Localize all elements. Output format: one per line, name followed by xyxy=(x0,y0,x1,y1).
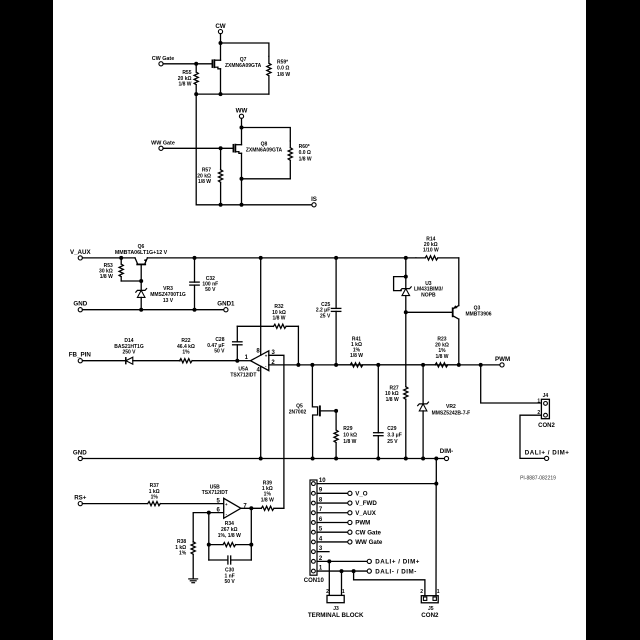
capacitor C32 xyxy=(190,258,218,310)
wire CW Gate to Q7 gate xyxy=(163,62,212,66)
wire U3 to Q3 base xyxy=(404,310,453,314)
node GND lower xyxy=(73,450,87,461)
wire J4 pin2 to DALI+ xyxy=(520,415,545,458)
wire Q3 collector down xyxy=(457,319,461,367)
wire node to IS rail xyxy=(196,94,312,205)
svg-text:50 V: 50 V xyxy=(224,579,235,585)
svg-text:DALI+ / DIM+: DALI+ / DIM+ xyxy=(375,559,420,566)
wire Q7 bottom rail xyxy=(194,92,269,96)
wire Q8 bottom rail xyxy=(242,178,291,180)
svg-text:MMBT3906: MMBT3906 xyxy=(465,312,491,318)
svg-text:V_AUX: V_AUX xyxy=(355,510,377,517)
svg-text:VR2: VR2 xyxy=(446,404,456,410)
transistor Q5 xyxy=(289,363,338,461)
svg-text:50 V: 50 V xyxy=(214,349,225,355)
svg-text:RS+: RS+ xyxy=(74,495,87,502)
svg-text:1%: 1% xyxy=(182,350,190,356)
capacitor C28 xyxy=(207,326,242,360)
wire R32 down to inverting input xyxy=(296,326,300,367)
wire pin9 V_O xyxy=(317,491,368,498)
wire pin8 V_FWD xyxy=(317,500,377,507)
resistor R38 xyxy=(175,539,195,579)
wire pin1 DALI- xyxy=(317,568,417,575)
wire U5A pin3 non-inverting input xyxy=(269,355,284,508)
svg-text:DIM-: DIM- xyxy=(440,448,453,455)
wire R53 to VR3 node xyxy=(121,279,143,283)
svg-text:WW Gate: WW Gate xyxy=(355,539,383,546)
wire Q7 source to bottom rail xyxy=(219,69,223,96)
node GND xyxy=(73,301,87,312)
shunt regulator U3 xyxy=(394,258,444,312)
svg-text:J3: J3 xyxy=(333,606,339,612)
svg-text:1: 1 xyxy=(537,398,540,404)
wire WW Gate to Q8 gate xyxy=(163,146,233,150)
svg-text:PWM: PWM xyxy=(495,356,510,363)
svg-text:TSX712IDT: TSX712IDT xyxy=(230,372,256,378)
capacitor C25 xyxy=(316,258,341,365)
diode D14 xyxy=(82,338,180,364)
wire pin6 PWM xyxy=(317,520,370,527)
wire pin2 DALI+ xyxy=(317,559,420,566)
svg-text:FB_PIN: FB_PIN xyxy=(69,352,92,359)
transistor Q3 xyxy=(453,305,492,319)
wire R34 C30 loop right xyxy=(250,508,252,560)
wire CON10 pin10 to DIM- net xyxy=(317,459,438,596)
svg-text:PWM: PWM xyxy=(355,520,370,527)
wire U5B output xyxy=(241,506,261,510)
svg-text:1/8 W: 1/8 W xyxy=(386,397,399,403)
svg-text:1%: 1% xyxy=(151,495,159,501)
node WW Gate xyxy=(151,140,175,150)
svg-text:13 V: 13 V xyxy=(163,298,174,304)
label PI-8887-082219 xyxy=(520,476,556,482)
svg-text:1/8 W: 1/8 W xyxy=(277,72,290,78)
zener VR2 xyxy=(418,363,471,461)
svg-text:+: + xyxy=(265,354,268,359)
svg-text:1%: 1% xyxy=(179,551,187,557)
svg-text:MMSZ5242B-7-F: MMSZ5242B-7-F xyxy=(432,410,471,416)
resistor R22 xyxy=(177,338,237,363)
svg-text:2N7002: 2N7002 xyxy=(289,410,307,416)
svg-text:250 V: 250 V xyxy=(122,350,136,356)
capacitor C29 xyxy=(374,363,402,461)
wire R57 to IS rail xyxy=(219,203,223,207)
svg-text:25 V: 25 V xyxy=(320,314,331,320)
wire V_AUX rail xyxy=(82,256,135,260)
ground xyxy=(189,579,198,583)
wire U5A pin2 inverting input xyxy=(269,364,502,366)
svg-text:1/8 W: 1/8 W xyxy=(343,439,356,445)
transistor Q6 xyxy=(115,244,168,281)
resistor R34 xyxy=(207,521,254,547)
resistor R23 xyxy=(378,337,459,367)
wire pin5 CW Gate xyxy=(317,529,382,536)
svg-text:Q3: Q3 xyxy=(474,305,481,311)
svg-text:DALI+ / DIM+: DALI+ / DIM+ xyxy=(525,450,570,457)
resistor R32 feedback xyxy=(237,304,298,328)
svg-text:1: 1 xyxy=(342,589,345,595)
connector J5 CON2 xyxy=(420,589,440,619)
svg-text:1/8 W: 1/8 W xyxy=(100,274,113,280)
node IS xyxy=(311,196,317,207)
op-amp U5A xyxy=(230,349,275,379)
connector CON10 xyxy=(304,480,325,584)
svg-text:1/8 W: 1/8 W xyxy=(261,497,274,503)
svg-text:1/8 W: 1/8 W xyxy=(198,179,211,185)
node RS+ xyxy=(74,495,87,506)
node DALI+ / DIM+ xyxy=(525,450,570,461)
wire U5B pin6 input xyxy=(193,511,224,542)
svg-text:TSX712IDT: TSX712IDT xyxy=(202,490,228,496)
wire pin3 stub xyxy=(317,551,329,553)
svg-text:1%, 1/8 W: 1%, 1/8 W xyxy=(218,533,241,539)
wire GND rail to DIM- xyxy=(82,457,444,461)
wire R34 C30 loop left xyxy=(208,513,210,560)
connector J3 terminal block xyxy=(308,589,364,619)
svg-text:WW: WW xyxy=(236,107,248,114)
svg-text:3.3 μF: 3.3 μF xyxy=(387,433,401,439)
resistor R39 xyxy=(261,480,284,510)
resistor R55 xyxy=(178,64,199,94)
svg-text:1/10 W: 1/10 W xyxy=(423,248,439,254)
wire pin4 WW Gate xyxy=(317,539,383,546)
wire xyxy=(220,34,222,43)
resistor R14 xyxy=(416,237,459,260)
svg-text:NOPB: NOPB xyxy=(421,292,436,298)
svg-text:C29: C29 xyxy=(387,426,396,432)
wire DALI+ to J3 pin2 xyxy=(328,561,330,595)
svg-text:CW: CW xyxy=(215,23,225,30)
node CW Gate xyxy=(152,56,174,66)
svg-text:1/8 W: 1/8 W xyxy=(350,353,363,359)
svg-text:DALI- / DIM-: DALI- / DIM- xyxy=(375,568,417,575)
wire Q8 drain rail xyxy=(240,126,291,145)
node V_AUX xyxy=(70,249,92,260)
svg-text:R60*: R60* xyxy=(299,144,310,150)
wire R14 to Q3 emitter xyxy=(458,258,460,306)
transistor Q8 xyxy=(233,142,282,154)
svg-text:0.0 Ω: 0.0 Ω xyxy=(277,66,289,72)
node DIM- xyxy=(440,448,453,460)
wire U5A pin8 to +12V xyxy=(260,258,262,355)
resistor R37 xyxy=(82,483,223,506)
wire Q7 drain rail xyxy=(219,41,269,60)
wire xyxy=(241,118,243,127)
svg-text:TERMINAL BLOCK: TERMINAL BLOCK xyxy=(308,612,364,619)
wire U5A pin4 to GND xyxy=(259,366,263,460)
svg-text:MMBTA06LT1G+12 V: MMBTA06LT1G+12 V xyxy=(115,250,168,256)
svg-text:CW Gate: CW Gate xyxy=(355,529,381,536)
svg-text:10 kΩ: 10 kΩ xyxy=(343,433,357,439)
resistor R27 xyxy=(385,312,408,460)
svg-text:PI-8887-082219: PI-8887-082219 xyxy=(520,476,556,482)
svg-text:GND1: GND1 xyxy=(217,301,235,308)
svg-text:ZXMN6A09GTA: ZXMN6A09GTA xyxy=(246,147,283,153)
resistor R53 xyxy=(99,258,123,281)
wire GND to GND1 xyxy=(82,308,223,312)
svg-text:R59*: R59* xyxy=(277,59,288,65)
svg-text:1/8 W: 1/8 W xyxy=(272,316,285,322)
capacitor C30 xyxy=(209,556,252,585)
svg-text:50 V: 50 V xyxy=(205,287,216,293)
resistor R41 xyxy=(336,337,378,367)
svg-text:2: 2 xyxy=(326,589,329,595)
svg-text:0.0 Ω: 0.0 Ω xyxy=(299,150,311,156)
svg-text:2: 2 xyxy=(420,589,423,595)
svg-text:J4: J4 xyxy=(543,393,549,399)
op-amp U5B xyxy=(202,485,248,519)
svg-text:V_FWD: V_FWD xyxy=(355,500,377,507)
resistor R60 xyxy=(288,141,312,179)
svg-text:GND: GND xyxy=(73,301,87,308)
wire pin7 V_AUX xyxy=(317,510,377,517)
svg-text:V_O: V_O xyxy=(355,491,368,498)
svg-text:CON2: CON2 xyxy=(421,612,439,619)
svg-text:1/8 W: 1/8 W xyxy=(299,156,312,162)
wire PWM node to CON2 J4 pin1 xyxy=(481,365,542,403)
resistor R59 xyxy=(267,56,291,94)
wire Q8 source to IS rail xyxy=(240,179,244,207)
svg-text:1/8 W: 1/8 W xyxy=(435,354,448,360)
connector J4 CON2 xyxy=(537,393,555,429)
resistor R29 xyxy=(334,411,357,459)
node GND1 xyxy=(217,301,235,312)
svg-text:IS: IS xyxy=(311,196,317,203)
resistor R57 xyxy=(197,148,222,205)
node WW xyxy=(236,107,248,118)
node PWM xyxy=(479,356,510,367)
node FB_PIN xyxy=(69,352,92,363)
svg-text:GND: GND xyxy=(73,450,87,457)
zener VR3 xyxy=(136,281,186,310)
wire DALI- to J5 pin2 xyxy=(354,571,425,596)
svg-text:CW Gate: CW Gate xyxy=(152,56,174,62)
svg-text:WW Gate: WW Gate xyxy=(151,140,175,146)
wire to op-amp output xyxy=(235,359,250,363)
wire DALI- to J3 pin1 xyxy=(341,571,343,595)
svg-text:J5: J5 xyxy=(428,606,434,612)
wire Q8 source to bottom rail xyxy=(240,153,244,181)
svg-text:CON10: CON10 xyxy=(304,578,325,584)
svg-text:+: + xyxy=(225,502,228,507)
transistor Q7 xyxy=(212,57,261,69)
CON10 pin numbers xyxy=(319,478,326,571)
svg-text:V_AUX: V_AUX xyxy=(70,249,92,256)
svg-text:R29: R29 xyxy=(343,426,352,432)
svg-text:1: 1 xyxy=(437,589,440,595)
svg-text:CON2: CON2 xyxy=(538,423,555,429)
svg-text:25 V: 25 V xyxy=(387,439,398,445)
node CW xyxy=(215,23,225,34)
svg-text:1/8 W: 1/8 W xyxy=(178,82,191,88)
svg-text:ZXMN6A09GTA: ZXMN6A09GTA xyxy=(225,63,262,69)
wire +12V rail xyxy=(147,256,416,260)
